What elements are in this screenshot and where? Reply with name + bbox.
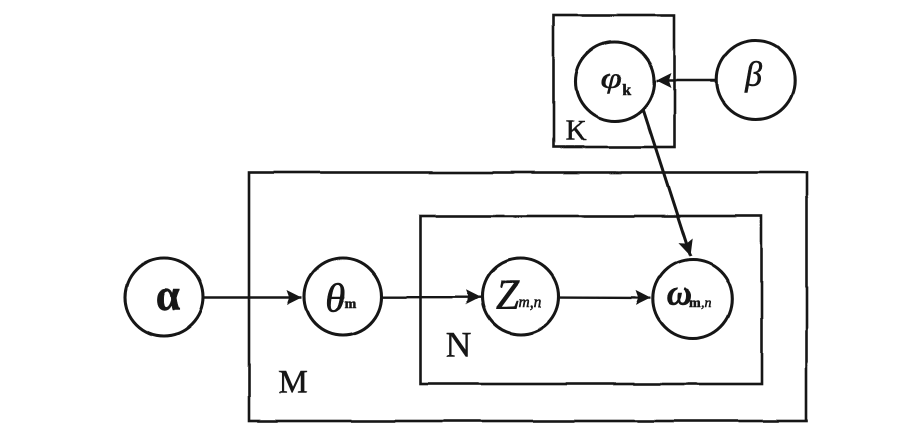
node Z_mn <box>483 259 559 335</box>
plate M <box>249 173 807 422</box>
svg-text:M: M <box>278 365 307 401</box>
node theta_m <box>305 258 382 335</box>
svg-text:k: k <box>623 82 632 99</box>
svg-text:θ: θ <box>326 274 346 320</box>
svg-text:m: m <box>690 296 702 311</box>
node beta <box>717 41 795 119</box>
wire phi to omega <box>643 109 691 256</box>
wire Z to omega <box>559 296 652 299</box>
svg-text:φ: φ <box>601 62 623 94</box>
svg-text:,n: ,n <box>702 296 713 311</box>
wire beta to phi <box>657 79 717 81</box>
svg-text:N: N <box>446 325 472 365</box>
svg-text:K: K <box>565 115 586 147</box>
svg-text:m,n: m,n <box>519 294 542 311</box>
node alpha <box>125 258 203 336</box>
wire theta to Z <box>381 296 481 298</box>
plate N <box>421 216 762 384</box>
plate K <box>554 16 675 148</box>
svg-text:m: m <box>345 296 357 311</box>
svg-text:α: α <box>155 271 180 320</box>
wire alpha to theta <box>203 296 302 298</box>
svg-text:β: β <box>744 57 762 94</box>
svg-text:Z: Z <box>496 273 520 319</box>
node phi_k <box>576 42 655 121</box>
node omega_mn <box>653 260 732 339</box>
